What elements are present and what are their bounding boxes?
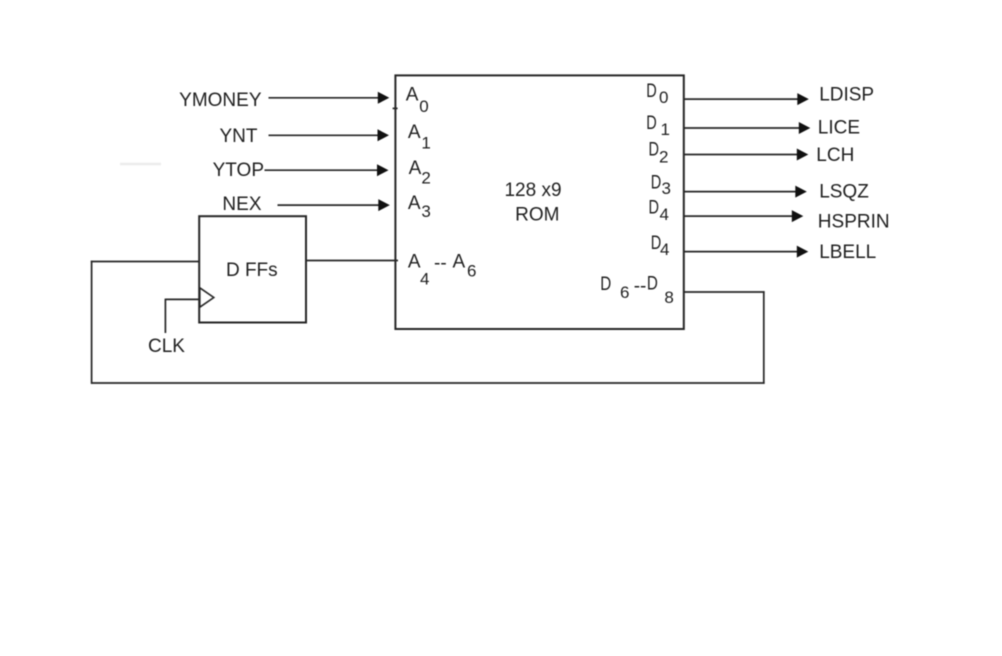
- svg-text:128 x9: 128 x9: [504, 180, 561, 201]
- pin stub A0: [393, 107, 398, 109]
- svg-text:4: 4: [660, 240, 669, 259]
- svg-text:--: --: [634, 276, 647, 297]
- svg-text:D: D: [646, 81, 657, 102]
- feedback wire bottom horizontal: [91, 382, 765, 384]
- wire D0 to LDISP with arrowhead: [684, 98, 798, 100]
- wire D4 to LBELL with arrowhead: [684, 251, 797, 253]
- svg-text:2: 2: [659, 147, 668, 166]
- CLK wire horizontal into clock wedge: [165, 298, 199, 300]
- svg-text:YMONEY: YMONEY: [179, 90, 262, 111]
- svg-text:D FFs: D FFs: [226, 260, 278, 281]
- CLK wire vertical: [164, 299, 166, 333]
- svg-text:LICE: LICE: [818, 118, 860, 139]
- svg-text:D: D: [651, 172, 662, 193]
- svg-text:1: 1: [421, 133, 430, 152]
- svg-text:A: A: [408, 193, 421, 214]
- svg-text:6: 6: [467, 262, 476, 281]
- svg-text:D: D: [646, 113, 657, 134]
- svg-text:2: 2: [421, 168, 430, 187]
- svg-text:3: 3: [421, 202, 430, 221]
- svg-text:HSPRIN: HSPRIN: [818, 212, 890, 233]
- svg-text:1: 1: [661, 120, 670, 139]
- clock edge-trigger wedge on D FFs: [200, 288, 214, 307]
- svg-text:YNT: YNT: [220, 126, 258, 147]
- ROM U1 box (128x9 ROM): [395, 75, 683, 329]
- svg-text:ROM: ROM: [515, 204, 559, 225]
- svg-text:LSQZ: LSQZ: [819, 181, 869, 202]
- wire D4 to HSPRIN with arrowhead: [684, 215, 792, 217]
- svg-text:NEX: NEX: [222, 194, 261, 215]
- wire D FFs output to A4-A6 input: [306, 260, 398, 262]
- svg-text:4: 4: [420, 269, 429, 288]
- svg-text:0: 0: [419, 97, 428, 116]
- svg-text:CLK: CLK: [148, 336, 185, 357]
- svg-text:A: A: [408, 122, 421, 143]
- wire D1 to LICE with arrowhead: [684, 127, 799, 129]
- feedback wire D6-D8 horizontal from ROM right edge: [684, 291, 765, 293]
- feedback wire into D FFs input: [91, 261, 199, 263]
- svg-text:6: 6: [620, 283, 629, 302]
- svg-text:D: D: [600, 274, 611, 295]
- svg-text:A: A: [406, 84, 419, 105]
- svg-text:3: 3: [662, 179, 671, 198]
- svg-text:D: D: [649, 198, 660, 219]
- wire D2 to LCH with arrowhead: [684, 154, 797, 156]
- wire YMONEY to A0 with arrowhead: [269, 97, 379, 99]
- D FFs U2 box: [199, 216, 306, 322]
- svg-text:LBELL: LBELL: [819, 242, 876, 263]
- svg-text:D: D: [649, 140, 660, 161]
- wire NEX to A3 with arrowhead: [278, 204, 379, 206]
- svg-text:A: A: [453, 251, 466, 272]
- svg-text:LCH: LCH: [816, 145, 854, 166]
- svg-text:4: 4: [660, 205, 669, 224]
- wire YNT to A1 with arrowhead: [269, 134, 379, 136]
- wire YTOP to A2 with arrowhead: [265, 169, 378, 171]
- svg-text:--: --: [434, 253, 447, 274]
- svg-text:LDISP: LDISP: [819, 84, 874, 105]
- feedback wire left vertical: [91, 261, 93, 384]
- svg-text:A: A: [409, 158, 422, 179]
- svg-text:0: 0: [659, 88, 668, 107]
- svg-text:8: 8: [664, 288, 673, 307]
- svg-text:A: A: [408, 252, 421, 273]
- wire D3 to LSQZ with arrowhead: [684, 191, 796, 193]
- feedback wire right vertical: [763, 291, 765, 384]
- svg-text:D: D: [647, 274, 658, 295]
- svg-text:YTOP: YTOP: [213, 160, 264, 181]
